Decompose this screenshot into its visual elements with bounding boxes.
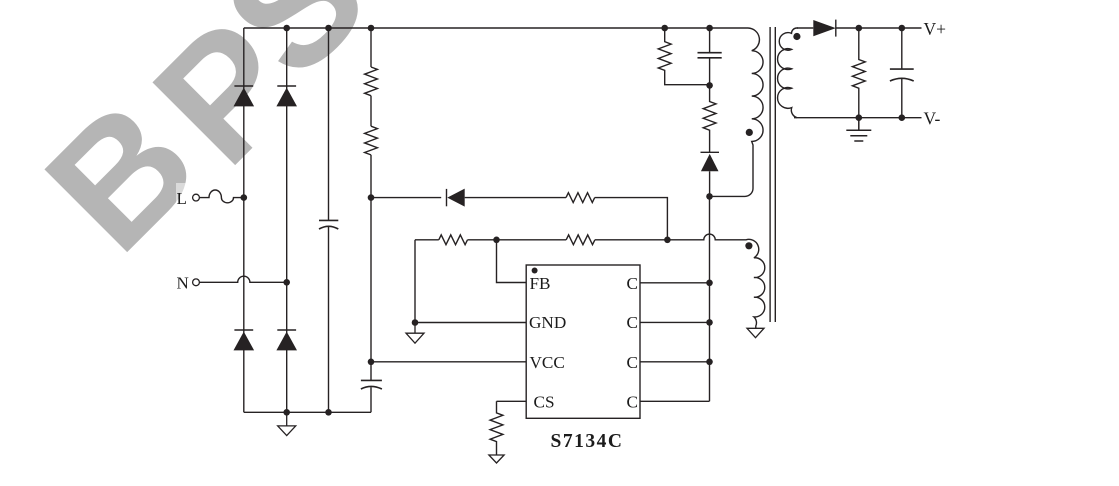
- wire C pin1 stub: [640, 282, 710, 284]
- svg-text:VCC: VCC: [530, 353, 565, 372]
- ground main bridge: [278, 412, 296, 435]
- node L junction dot: [241, 194, 248, 201]
- wire bottom rail: [244, 411, 371, 413]
- fuse F1 squiggle: [199, 190, 243, 203]
- transformer T1 secondary polarity dot: [793, 33, 800, 40]
- wire C pin3 stub: [640, 361, 710, 363]
- node GND dot: [412, 319, 419, 326]
- node VCC dot at leg D: [368, 359, 375, 366]
- transformer T1 primary polarity dot: [746, 129, 753, 136]
- resistor R4: [703, 85, 716, 152]
- node output dots: [856, 25, 906, 121]
- node row1 dot at leg D: [368, 194, 375, 201]
- wire leg C lower: [328, 227, 330, 412]
- wire CS pin: [497, 400, 527, 402]
- svg-text:GND: GND: [529, 313, 566, 332]
- resistor R3 snubber: [658, 28, 709, 85]
- transformer T1 secondary winding: [778, 28, 798, 118]
- diode D5 pointing up: [701, 152, 720, 196]
- wire VCC pin: [371, 361, 526, 363]
- ground GND pin: [406, 323, 424, 344]
- capacitor C1 electrolytic bulk: [319, 220, 338, 229]
- watermark BPS: [18, 72, 225, 279]
- node bus dot pin2: [706, 319, 713, 326]
- node bottom rail dot at leg B: [283, 409, 290, 416]
- terminal N circle: [193, 279, 200, 286]
- ground CS: [489, 455, 504, 463]
- wire top rail: [244, 27, 748, 29]
- wire bridge leg A vertical x=243.8: [243, 28, 245, 412]
- wire secondary top: [797, 27, 813, 29]
- diode D3 bridge bottom-left: [234, 330, 255, 350]
- wire output top rail: [836, 27, 922, 29]
- node N junction dot: [283, 279, 290, 286]
- capacitor C3 snubber: [698, 28, 722, 85]
- wire row2 lead: [415, 239, 439, 241]
- diode D4 bridge bottom-right: [276, 330, 297, 350]
- wire row1 mid: [465, 197, 566, 199]
- capacitor C4 output electrolytic: [890, 28, 914, 118]
- node bus top dot: [706, 193, 713, 200]
- svg-text:FB: FB: [530, 274, 551, 293]
- ground earth output: [846, 118, 871, 141]
- wire row1 right + corner down: [595, 198, 668, 240]
- svg-text:CS: CS: [534, 393, 555, 412]
- svg-text:L: L: [177, 189, 187, 208]
- wire FB pin: [497, 240, 527, 283]
- resistor R5 row1: [566, 193, 595, 203]
- diode D2 bridge top-right: [276, 86, 297, 106]
- wire GND pin: [415, 322, 526, 324]
- diode D7 output pointing right: [813, 20, 836, 37]
- wire output bottom rail: [794, 117, 922, 119]
- wire leg D upper: [370, 28, 372, 67]
- resistor R7 row2: [566, 235, 595, 245]
- svg-text:V-: V-: [924, 109, 941, 129]
- resistor R6 row2: [439, 235, 468, 245]
- wire row1 left: [371, 197, 441, 199]
- wire leg D bottom: [370, 387, 372, 412]
- svg-text:V+: V+: [924, 19, 947, 39]
- wire C pin4 stub: [640, 400, 710, 402]
- node row2 FB dot: [493, 237, 500, 244]
- resistor R9 output: [852, 28, 865, 118]
- L knockout patch: [176, 183, 212, 208]
- terminal L circle: [193, 194, 200, 201]
- svg-text:N: N: [177, 274, 189, 293]
- node snubber top rail dot R3: [661, 25, 668, 32]
- node top rail dot at leg C: [325, 25, 332, 32]
- IC U1 pin1 dot: [532, 268, 538, 274]
- wire between R1 R2: [370, 96, 372, 127]
- resistor R1 leg D: [365, 67, 378, 96]
- wire leg D middle: [370, 155, 372, 381]
- wire bridge leg B vertical x=286.7: [286, 28, 288, 412]
- ground aux winding: [747, 328, 764, 337]
- svg-text:S7134C: S7134C: [551, 431, 624, 452]
- node bus dot pin1: [706, 280, 713, 287]
- diode D6 row1 pointing left: [447, 189, 465, 207]
- wire N with hop over leg A: [199, 276, 286, 282]
- resistor R8 CS: [490, 401, 503, 454]
- node bus dot pin3: [706, 359, 713, 366]
- svg-text:C: C: [627, 274, 638, 293]
- wire row2 right with hop over bus: [595, 234, 742, 240]
- transformer T1 primary winding: [710, 28, 764, 196]
- node snubber top rail dot C3: [706, 25, 713, 32]
- svg-text:C: C: [627, 313, 638, 332]
- svg-text:C: C: [627, 393, 638, 412]
- transformer T1 aux winding: [742, 239, 765, 328]
- node top rail dot at leg D: [368, 25, 375, 32]
- node row2 dot right: [664, 237, 671, 244]
- wire bus vertical: [709, 196, 711, 401]
- wire C pin2 stub: [640, 321, 710, 323]
- node snubber mid dot: [706, 82, 713, 89]
- wire row2 mid: [468, 239, 567, 241]
- transformer T1 core lines: [770, 27, 775, 322]
- node top rail dot at leg B: [283, 25, 290, 32]
- node bottom rail dot at leg C: [325, 409, 332, 416]
- svg-text:C: C: [627, 353, 638, 372]
- diode D1 bridge top-left: [234, 86, 255, 106]
- wire leg C upper: [328, 28, 330, 220]
- capacitor C2 electrolytic leg D: [361, 380, 382, 389]
- wire row2 left riser to GND node: [414, 240, 416, 323]
- resistor R2 leg D: [365, 126, 378, 155]
- transformer T1 aux polarity dot: [745, 242, 752, 249]
- IC U1 box: [526, 265, 640, 418]
